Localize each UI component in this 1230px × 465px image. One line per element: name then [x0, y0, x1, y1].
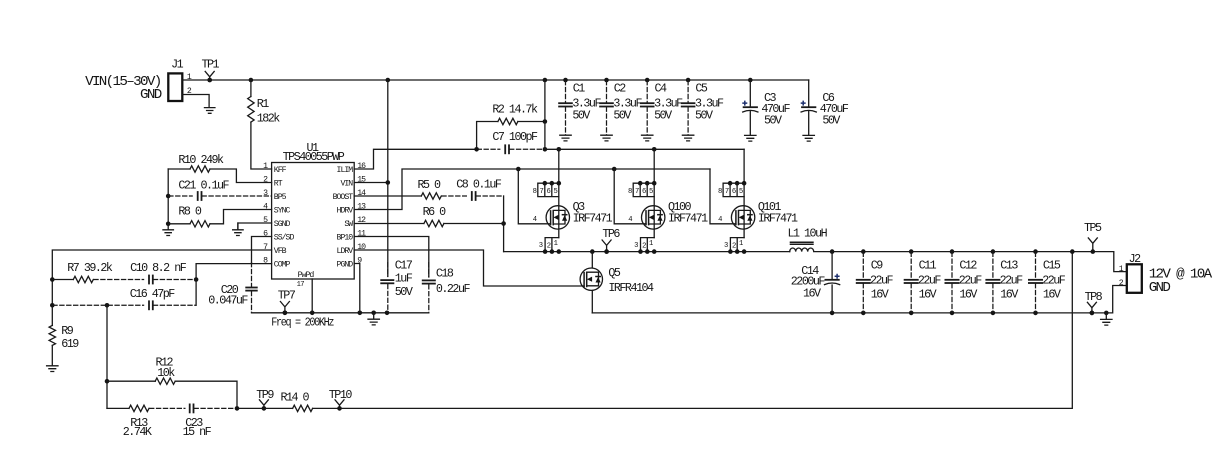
svg-text:J1: J1 — [171, 57, 184, 71]
svg-text:TP5: TP5 — [1084, 221, 1102, 235]
ground — [368, 313, 379, 325]
capacitor C15 22uF 16V — [1035, 252, 1037, 280]
wire SS/SD pin6 — [252, 237, 272, 264]
svg-text:C16 47pF: C16 47pF — [130, 287, 176, 301]
svg-text:TP1: TP1 — [202, 58, 220, 72]
svg-text:TP6: TP6 — [602, 227, 620, 241]
resistor R10 249k — [168, 168, 190, 170]
connector J1 — [168, 73, 182, 101]
ground — [233, 223, 243, 236]
junction dots SW node — [590, 249, 595, 254]
junction dots VIN rail — [207, 78, 212, 83]
op-amp U1 TPS40055PWP body — [272, 163, 355, 280]
svg-text:16V: 16V — [803, 287, 821, 301]
svg-text:C18: C18 — [436, 266, 454, 280]
svg-text:J2: J2 — [1129, 252, 1142, 266]
svg-text:50V: 50V — [654, 109, 672, 123]
svg-text:BOOST: BOOST — [333, 193, 354, 202]
svg-text:Q5: Q5 — [608, 266, 621, 280]
svg-text:6: 6 — [642, 188, 646, 196]
resistor R5 0 — [354, 195, 421, 197]
resistor R12 10k — [107, 380, 155, 382]
transistor Q3 IRF7471 — [558, 149, 560, 183]
transistor Q100 IRF7471 — [653, 149, 655, 183]
svg-text:16V: 16V — [1000, 287, 1018, 301]
capacitor C8 0.1uF — [441, 195, 467, 197]
capacitor C17 1uF 50V — [387, 262, 389, 277]
svg-text:6: 6 — [732, 188, 736, 196]
svg-text:2: 2 — [642, 242, 646, 250]
resistor R6 0 — [354, 223, 424, 225]
capacitor C16 47pF — [52, 304, 144, 306]
svg-text:16V: 16V — [871, 287, 889, 301]
svg-text:BP5: BP5 — [274, 193, 287, 202]
ground — [1101, 313, 1112, 325]
svg-text:7: 7 — [635, 188, 639, 196]
svg-text:16V: 16V — [919, 287, 937, 301]
wire LDRV pin10 to Q5 gate — [354, 250, 584, 286]
svg-text:C13: C13 — [1000, 259, 1018, 273]
svg-text:C10 8.2 nF: C10 8.2 nF — [130, 261, 187, 275]
capacitor C1 3.3uF 50V — [565, 80, 567, 103]
resistor R9 619 — [51, 305, 53, 325]
svg-text:HDRV: HDRV — [337, 206, 354, 215]
svg-text:R7 39.2k: R7 39.2k — [67, 261, 113, 275]
svg-text:16V: 16V — [959, 287, 977, 301]
svg-text:GND: GND — [140, 87, 162, 103]
wire output ground — [592, 286, 1126, 313]
svg-text:IRF7471: IRF7471 — [758, 212, 798, 226]
svg-text:2: 2 — [732, 242, 736, 250]
wire ILIM pin16 — [354, 149, 476, 169]
resistor R14 0 — [264, 407, 293, 409]
svg-text:50V: 50V — [395, 285, 413, 299]
capacitor C18 0.22uF — [428, 262, 430, 277]
capacitor C9 22uF 16V — [862, 252, 864, 280]
capacitor C20 0.047uF — [251, 262, 253, 287]
svg-text:22uF: 22uF — [1000, 274, 1024, 288]
connector J2 — [1127, 264, 1142, 293]
svg-text:R1: R1 — [257, 97, 270, 111]
svg-text:C17: C17 — [395, 259, 413, 273]
svg-text:COMP: COMP — [274, 260, 291, 269]
wire COMP net pin8 — [196, 264, 272, 306]
svg-text:22uF: 22uF — [870, 274, 894, 288]
svg-text:1: 1 — [649, 240, 653, 248]
svg-text:15 nF: 15 nF — [183, 425, 212, 439]
svg-text:C8 0.1uF: C8 0.1uF — [456, 178, 502, 192]
svg-text:50V: 50V — [572, 109, 590, 123]
capacitor C4 3.3uF 50V — [646, 80, 648, 103]
ground — [47, 366, 58, 372]
svg-text:0.22uF: 0.22uF — [436, 282, 471, 296]
wire VIN to ILIM network — [544, 80, 546, 149]
svg-text:182k: 182k — [257, 111, 281, 125]
svg-text:5: 5 — [739, 188, 743, 196]
svg-text:2: 2 — [547, 242, 551, 250]
svg-text:SYNC: SYNC — [274, 206, 291, 215]
wire feedback from VOUT — [340, 252, 1073, 409]
svg-text:R8 0: R8 0 — [178, 205, 202, 219]
svg-text:L1 10uH: L1 10uH — [788, 227, 828, 241]
svg-text:10k: 10k — [157, 366, 175, 380]
svg-text:C1: C1 — [573, 82, 586, 96]
resistor R8 0 — [168, 223, 190, 225]
capacitor C23 15nF — [189, 404, 191, 414]
svg-text:50V: 50V — [822, 114, 840, 128]
svg-text:5: 5 — [554, 188, 558, 196]
wire VIN pin15 vertical — [387, 80, 389, 277]
svg-text:16V: 16V — [1043, 287, 1061, 301]
wire VFB to divider vertical — [106, 305, 108, 408]
svg-text:SGND: SGND — [274, 220, 291, 229]
svg-text:22uF: 22uF — [959, 274, 983, 288]
svg-text:C21 0.1uF: C21 0.1uF — [178, 179, 229, 193]
resistor R7 39.2k — [52, 279, 73, 281]
svg-text:C9: C9 — [871, 259, 884, 273]
svg-text:VIN: VIN — [340, 179, 353, 188]
svg-text:2.74K: 2.74K — [123, 425, 152, 439]
svg-text:R10 249k: R10 249k — [178, 153, 224, 167]
junction dots output ground — [830, 311, 835, 316]
resistor R1 182k — [250, 80, 252, 97]
capacitor C6 470uF 50V polarized — [808, 80, 810, 107]
svg-text:3: 3 — [539, 242, 543, 250]
ground — [204, 108, 214, 114]
wire VFB net pin7 — [52, 250, 271, 305]
svg-text:BP10: BP10 — [337, 233, 354, 242]
transistor Q101 IRF7471 — [743, 149, 745, 183]
wire left bias vertical — [167, 169, 169, 224]
svg-text:Freq = 200KHz: Freq = 200KHz — [271, 316, 334, 330]
svg-text:17: 17 — [297, 281, 305, 289]
svg-text:C2: C2 — [614, 82, 627, 96]
svg-text:C5: C5 — [695, 82, 708, 96]
svg-text:4: 4 — [533, 216, 537, 224]
wire BOOST to SW node — [503, 196, 505, 252]
resistor R2 14.7k — [477, 122, 498, 150]
capacitor C7 100pF — [477, 148, 501, 150]
wire BP10 pin11 — [354, 237, 429, 278]
svg-text:C15: C15 — [1043, 259, 1061, 273]
svg-text:SS/SD: SS/SD — [274, 232, 295, 242]
svg-text:0.047uF: 0.047uF — [208, 293, 248, 307]
svg-text:5: 5 — [649, 188, 653, 196]
junction dots VOUT — [830, 249, 835, 254]
svg-text:PGND: PGND — [337, 260, 354, 269]
svg-text:50V: 50V — [613, 109, 631, 123]
svg-text:4: 4 — [718, 216, 722, 224]
ground — [163, 224, 173, 236]
svg-text:619: 619 — [61, 337, 79, 351]
capacitor C21 0.1uF — [168, 195, 193, 197]
svg-text:8: 8 — [628, 188, 632, 196]
svg-text:KFF: KFF — [274, 166, 287, 175]
svg-text:8: 8 — [718, 188, 722, 196]
wire J1 pin2 to ground — [182, 95, 209, 108]
svg-text:R6 0: R6 0 — [423, 205, 447, 219]
svg-text:22uF: 22uF — [918, 274, 942, 288]
capacitor C14 2200uF 16V polarized — [831, 252, 833, 280]
svg-text:R2 14.7k: R2 14.7k — [492, 102, 538, 116]
capacitor C10 8.2nF — [148, 275, 150, 285]
svg-text:1: 1 — [739, 240, 743, 248]
wire PGND pin9 — [354, 264, 360, 313]
svg-text:RT: RT — [274, 179, 283, 188]
svg-text:1uF: 1uF — [395, 272, 413, 286]
wire VIN rail — [182, 79, 808, 81]
svg-text:3: 3 — [634, 242, 638, 250]
svg-text:GND: GND — [1149, 280, 1171, 296]
svg-text:LDRV: LDRV — [337, 247, 354, 256]
svg-text:50V: 50V — [764, 114, 782, 128]
wire PwPd pin17 — [311, 279, 313, 313]
wire gate Q101 — [710, 169, 736, 224]
capacitor C5 3.3uF 50V — [687, 80, 689, 103]
svg-text:R14 0: R14 0 — [281, 390, 310, 404]
svg-text:7: 7 — [725, 188, 729, 196]
svg-text:50V: 50V — [695, 109, 713, 123]
svg-text:PwPd: PwPd — [298, 270, 315, 280]
inductor L1 10uH — [790, 242, 814, 244]
svg-text:C7 100pF: C7 100pF — [492, 130, 538, 144]
svg-text:3: 3 — [724, 242, 728, 250]
svg-text:R9: R9 — [61, 324, 74, 338]
wire SGND pin5 to ground — [238, 223, 272, 230]
svg-text:IRF7471: IRF7471 — [668, 212, 708, 226]
svg-text:4: 4 — [628, 216, 632, 224]
svg-text:C4: C4 — [655, 82, 668, 96]
capacitor C2 3.3uF 50V — [606, 80, 608, 103]
svg-text:C12: C12 — [959, 259, 977, 273]
wire SW node — [504, 251, 790, 253]
transistor Q5 IRFR4104 — [591, 252, 593, 268]
capacitor C11 22uF 16V — [910, 252, 912, 280]
svg-text:1: 1 — [554, 240, 558, 248]
svg-text:C11: C11 — [919, 259, 937, 273]
svg-text:TP10: TP10 — [329, 388, 353, 402]
wire VIN to FET drains — [545, 148, 744, 150]
svg-text:TPS40055PWP: TPS40055PWP — [283, 150, 345, 164]
svg-text:VFB: VFB — [274, 247, 287, 256]
wire gate Q3 — [518, 169, 550, 224]
svg-text:22uF: 22uF — [1042, 274, 1066, 288]
capacitor C12 22uF 16V — [951, 252, 953, 280]
svg-text:6: 6 — [547, 188, 551, 196]
svg-text:8: 8 — [533, 188, 537, 196]
wire gate Q100 — [614, 169, 646, 224]
resistor R13 2.74K — [107, 407, 129, 409]
svg-text:IRFR4104: IRFR4104 — [608, 281, 654, 295]
svg-text:SW: SW — [344, 220, 353, 229]
wire ground row — [252, 312, 429, 314]
svg-text:IRF7471: IRF7471 — [573, 212, 613, 226]
capacitor C3 470uF 50V polarized — [749, 80, 751, 107]
wire HDRV pin13 gate line — [354, 169, 710, 210]
svg-text:7: 7 — [540, 188, 544, 196]
capacitor C13 22uF 16V — [992, 252, 994, 280]
svg-text:R5 0: R5 0 — [418, 178, 442, 192]
svg-text:ILIM: ILIM — [337, 166, 354, 175]
svg-text:TP7: TP7 — [278, 288, 296, 302]
